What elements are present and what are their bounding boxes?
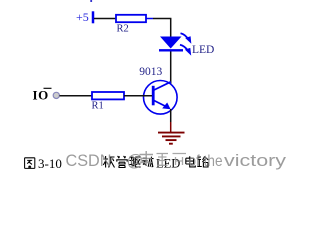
wire R1 to base (124, 95, 152, 97)
svg-text:IO: IO (33, 88, 49, 103)
power terminal bar (92, 11, 95, 23)
overline on O (44, 87, 52, 89)
svg-text:R1: R1 (92, 100, 104, 111)
watermark CJK blob 1 (140, 151, 154, 166)
wire terminal to R1 (60, 95, 93, 97)
svg-text:LED: LED (156, 157, 180, 171)
caption CJK 动 (142, 157, 153, 167)
svg-text:victory: victory (224, 152, 287, 170)
svg-text:3-10: 3-10 (38, 156, 62, 171)
caption CJK 极 (103, 156, 114, 168)
transistor Q1 9013 circle (144, 81, 178, 115)
LED light arrow upper (181, 33, 188, 39)
transistor emitter stroke with arrow (154, 101, 169, 108)
transistor base bar (152, 86, 155, 106)
caption CJK 驱 (129, 157, 141, 167)
svg-text:R2: R2 (117, 24, 129, 35)
caption CJK 电 (186, 156, 196, 167)
ground symbol (158, 133, 185, 144)
wire from +5 terminal to R2 (94, 18, 116, 20)
svg-text:9013: 9013 (139, 66, 162, 78)
caption CJK 图 (25, 158, 35, 169)
watermark CJK blob 3 (173, 154, 187, 166)
LED D1 triangle (anode) (160, 37, 182, 49)
wire emitter down (dark red part) (170, 122, 172, 132)
transistor collector stroke (154, 82, 171, 90)
watermark CJK blob 2 (157, 154, 169, 166)
svg-text:+5: +5 (76, 10, 89, 24)
cropped wire remnant at top edge (90, 0, 92, 2)
wire corner down to LED anode (170, 19, 172, 39)
LED cathode bar (159, 49, 183, 51)
svg-text:LED: LED (192, 44, 214, 56)
svg-text:CSDN: CSDN (66, 152, 112, 170)
wire LED cathode to transistor collector (170, 52, 172, 85)
resistor R2 (116, 15, 146, 22)
input terminal dot (53, 92, 59, 98)
wire from R2 to corner (153, 18, 171, 20)
watermark layer (66, 151, 287, 170)
caption CJK 管 (116, 156, 127, 168)
caption CJK 路 (197, 157, 208, 168)
resistor R1 (92, 92, 124, 99)
svg-text:of the: of the (189, 153, 223, 170)
LED light arrow lower (180, 45, 188, 51)
R2 right pin stub (146, 18, 153, 20)
wire emitter down (black part) (170, 109, 172, 122)
